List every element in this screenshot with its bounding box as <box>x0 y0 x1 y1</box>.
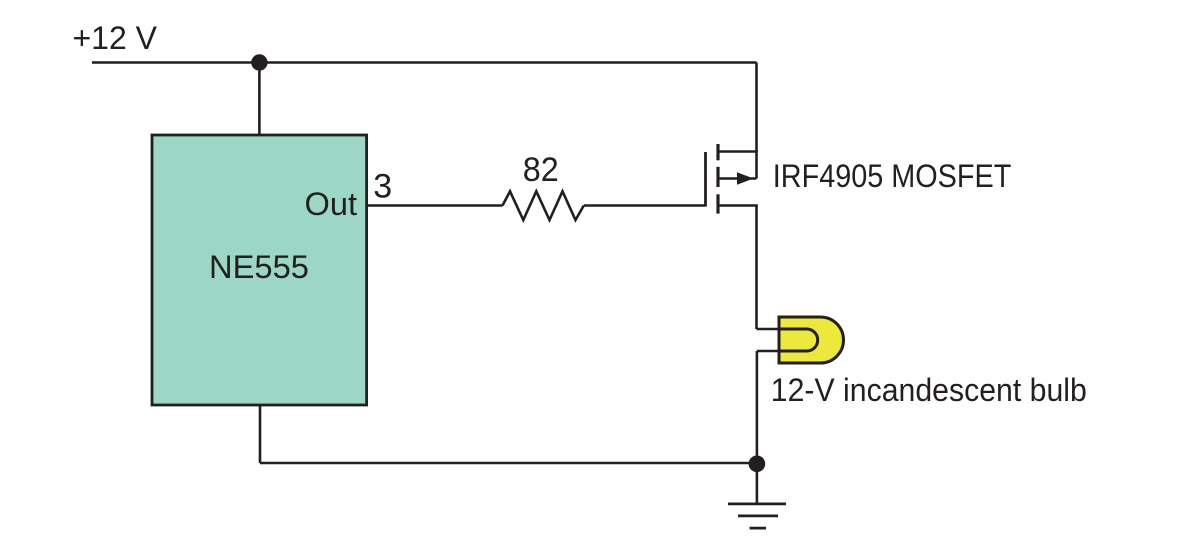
IC U1 NE555 body <box>152 135 367 405</box>
transistor Q1 source bar top <box>718 150 758 153</box>
wire MOSFET drain down to bulb <box>755 206 758 330</box>
wire NE555 pin 3 to resistor <box>367 204 503 207</box>
wire MOSFET source/body to +12V rail <box>755 63 758 179</box>
resistor R1 82 ohm zigzag <box>503 191 584 220</box>
transistor Q1 channel bar bottom <box>716 194 719 213</box>
ground bar 2 <box>738 515 778 518</box>
node ground junction dot <box>749 456 766 473</box>
transistor Q1 channel bar top <box>716 144 719 160</box>
lamp DS1 outer envelope <box>779 317 844 363</box>
wire bulb top lead jog <box>757 328 781 331</box>
wire bulb bottom lead jog <box>757 350 780 353</box>
svg-text:IRF4905 MOSFET: IRF4905 MOSFET <box>773 158 1012 194</box>
wire +12V rail to NE555 top <box>258 63 261 137</box>
wire resistor to MOSFET gate <box>584 204 706 207</box>
svg-text:82: 82 <box>523 151 559 189</box>
ground bar 3 <box>750 527 767 530</box>
lamp DS1 inner contact <box>779 329 818 351</box>
transistor Q1 body arrow head <box>737 172 754 184</box>
wire bottom ground rail <box>260 462 757 465</box>
node junction dot on +12V rail <box>251 54 267 70</box>
transistor Q1 drain bar bottom <box>718 204 758 207</box>
svg-text:+12 V: +12 V <box>73 20 158 56</box>
wire ground stem <box>756 464 759 504</box>
wire bulb to ground rail <box>756 351 759 463</box>
svg-text:NE555: NE555 <box>209 249 309 285</box>
svg-text:12-V incandescent bulb: 12-V incandescent bulb <box>771 372 1087 408</box>
transistor Q1 gate bar <box>704 152 707 207</box>
wire +12V rail top <box>92 61 757 64</box>
wire NE555 bottom to ground rail <box>259 405 262 463</box>
ground bar 1 <box>728 502 786 505</box>
svg-text:Out: Out <box>305 186 358 222</box>
transistor Q1 channel bar middle <box>716 167 719 187</box>
svg-text:3: 3 <box>373 167 392 205</box>
transistor Q1 body bar with arrow <box>718 177 757 180</box>
